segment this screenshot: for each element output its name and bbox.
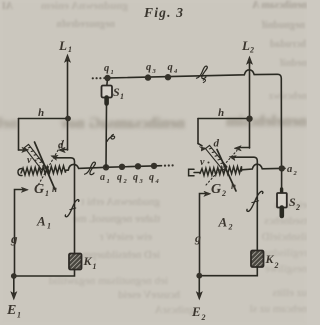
label K1 xyxy=(83,254,97,271)
wire q-line top (with hop over L2) xyxy=(104,70,282,165)
label A1 xyxy=(36,214,51,231)
label G1 xyxy=(34,182,49,198)
svg-text:1: 1 xyxy=(120,92,124,101)
relay K2 (hatched box) xyxy=(251,251,264,268)
svg-text:neb: neb xyxy=(0,115,18,132)
dashed pointer d xyxy=(39,141,64,185)
label G2 xyxy=(211,182,226,198)
svg-text:E: E xyxy=(191,304,201,319)
label f xyxy=(65,200,79,217)
svg-text:uz ellits: uz ellits xyxy=(272,287,307,299)
label f2 xyxy=(247,191,263,211)
svg-text:A: A xyxy=(218,215,228,230)
svg-text:S: S xyxy=(113,85,120,99)
wire g (left return) with arrow to n xyxy=(15,187,29,276)
wire h horizontal xyxy=(19,118,67,120)
wire h2 left vertical xyxy=(197,119,199,144)
svg-text:1: 1 xyxy=(47,222,51,231)
label S2 xyxy=(289,195,300,212)
figure caption Fig. 3 xyxy=(143,5,184,20)
svg-text:gnudnewnA eniem: gnudnewnA eniem xyxy=(41,0,128,12)
brush arm n2 xyxy=(217,150,236,192)
svg-text:gnudnewnA erhi t: gnudnewnA erhi t xyxy=(81,196,160,208)
arrow from L2 to contact (dashed end) xyxy=(234,146,249,151)
label K2 xyxy=(265,252,279,270)
svg-text:2: 2 xyxy=(228,223,233,232)
svg-text:q: q xyxy=(104,63,109,74)
svg-text:nehcsiwz: nehcsiwz xyxy=(268,91,307,102)
resistor G2 coil xyxy=(189,166,242,176)
label g xyxy=(10,231,18,246)
svg-text:d: d xyxy=(58,139,64,151)
svg-text:E: E xyxy=(6,303,16,318)
wire h left vertical xyxy=(18,119,20,151)
svg-text:q: q xyxy=(149,172,154,183)
svg-text:S: S xyxy=(289,195,296,209)
svg-text:nednif: nednif xyxy=(279,58,307,69)
wire t2 with hop over f2 xyxy=(242,164,286,170)
label E2 xyxy=(191,304,206,322)
terminal E1 arrow xyxy=(11,279,17,300)
svg-text:2: 2 xyxy=(295,203,300,212)
labels a1 q2 q3 q4 xyxy=(100,172,160,185)
svg-text:q: q xyxy=(133,172,138,183)
svg-text:tlahre negnusoL me: tlahre negnusoL me xyxy=(73,213,160,225)
wire t1 dotted section with taps xyxy=(109,166,162,168)
wire g2 (right return) with arrow to n2 xyxy=(200,191,211,276)
svg-text:q: q xyxy=(117,172,122,183)
label A2 xyxy=(218,215,233,232)
node q4 (top) xyxy=(165,74,171,80)
node h2 junction dot on L2 xyxy=(246,116,252,122)
svg-text:nenihcsamsaG nov: nenihcsamsaG nov xyxy=(60,115,185,132)
svg-text:L: L xyxy=(241,38,250,53)
svg-text:L: L xyxy=(58,38,67,53)
node E2 junction dot xyxy=(196,273,202,279)
label v xyxy=(27,155,37,166)
node q4 (lower) xyxy=(151,163,157,169)
svg-text:gnihcsrA: gnihcsrA xyxy=(155,304,195,316)
svg-text:2: 2 xyxy=(249,46,254,55)
svg-text:v: v xyxy=(200,157,205,168)
svg-text:eiw esieW r: eiw esieW r xyxy=(99,231,152,243)
svg-text:K: K xyxy=(265,252,275,266)
label a2 xyxy=(287,164,298,177)
wire K1 to bottom rail xyxy=(16,270,75,277)
svg-text:K: K xyxy=(83,254,93,268)
wire h2 horizontal xyxy=(198,118,247,120)
label h2 xyxy=(218,107,224,119)
q-line continuation dots (left) xyxy=(92,77,102,79)
labels q1 q3 q4 xyxy=(104,62,178,76)
svg-text:2: 2 xyxy=(274,261,279,270)
svg-text:nenihcsam A: nenihcsam A xyxy=(251,0,307,11)
svg-text:hcrudad: hcrudad xyxy=(269,39,306,50)
label d2 xyxy=(214,138,220,150)
svg-text:d: d xyxy=(214,138,220,150)
resistor G1 coil xyxy=(18,166,66,176)
svg-text:1: 1 xyxy=(107,178,110,185)
svg-text:v: v xyxy=(27,155,32,166)
svg-text:1: 1 xyxy=(93,262,97,271)
svg-text:h: h xyxy=(38,107,44,119)
svg-text:q: q xyxy=(146,62,151,73)
t1 continuation dots xyxy=(164,164,174,166)
node q2 xyxy=(119,164,125,170)
node q1 xyxy=(104,75,110,81)
svg-text:nenelehcsim: nenelehcsim xyxy=(226,113,307,130)
label l2 (script ell on q-line) xyxy=(197,66,208,79)
svg-text:q: q xyxy=(168,62,173,73)
terminal E2 arrow xyxy=(196,278,202,299)
svg-text:2: 2 xyxy=(201,313,206,322)
svg-text:ieD nehtsilduepm: ieD nehtsilduepm xyxy=(82,249,160,261)
svg-text:a: a xyxy=(100,172,105,183)
label n2 xyxy=(231,181,236,191)
svg-text:G: G xyxy=(34,182,44,197)
label d xyxy=(58,139,64,151)
label S1 xyxy=(113,85,124,101)
svg-text:tsednehcs: tsednehcs xyxy=(264,215,307,227)
svg-text:AI: AI xyxy=(2,1,13,12)
label s (wire 3) xyxy=(107,134,115,141)
wire f2 from brush (arrow, bend down) xyxy=(229,156,257,250)
label E1 xyxy=(6,303,21,320)
label t1 (script ell) xyxy=(85,162,96,175)
node h junction dot on L1 xyxy=(65,116,71,122)
brush arm n xyxy=(35,142,56,190)
label g2 xyxy=(194,231,201,245)
arrow to brush v2 (from h2) xyxy=(198,144,206,151)
wire t1 with hop over f xyxy=(66,164,104,170)
label L2 xyxy=(241,38,254,55)
svg-text:1: 1 xyxy=(17,311,21,320)
wire f from brush (arrow, bend down) xyxy=(51,155,75,252)
svg-text:negnuredrofn: negnuredrofn xyxy=(56,19,115,30)
node a2 xyxy=(279,165,285,171)
label L1 xyxy=(58,38,72,54)
svg-text:g: g xyxy=(10,231,18,246)
svg-text:g: g xyxy=(194,231,201,245)
label h xyxy=(38,107,44,119)
brush v2 (hatched band) xyxy=(206,145,228,170)
brush v (hatched band) xyxy=(25,144,47,170)
node q3 (lower) xyxy=(135,163,141,169)
terminal L1 arrow xyxy=(65,55,71,151)
svg-text:hcusreV eseid: hcusreV eseid xyxy=(118,289,180,301)
arrow to brush v (from h) xyxy=(19,147,29,152)
fuse S1 (box in series) xyxy=(102,81,113,167)
label v2 xyxy=(200,157,210,168)
svg-text:n: n xyxy=(231,181,236,191)
node E1 junction dot xyxy=(11,273,17,279)
wire K2 to bottom rail xyxy=(201,267,257,276)
svg-text:nehcam uz sl: nehcam uz sl xyxy=(250,303,307,315)
svg-text:1: 1 xyxy=(68,45,72,54)
relay K1 (hatched box) xyxy=(69,254,82,270)
node a1 xyxy=(103,164,109,170)
terminal L2 arrow xyxy=(247,57,253,149)
svg-text:h: h xyxy=(218,107,224,119)
svg-text:Fig. 3: Fig. 3 xyxy=(143,5,184,20)
svg-text:A: A xyxy=(36,214,46,229)
dashed pointer d2 xyxy=(206,151,237,186)
svg-text:2: 2 xyxy=(221,189,226,198)
svg-text:negnudnif: negnudnif xyxy=(261,20,305,31)
svg-text:a: a xyxy=(287,164,292,175)
fuse S2 (dead-end below a2) xyxy=(277,171,287,216)
arrow from L1 to contact d xyxy=(59,147,68,152)
svg-text:G: G xyxy=(211,182,221,197)
label n xyxy=(52,184,57,194)
node q3 (top) xyxy=(145,74,151,80)
svg-text:n: n xyxy=(52,184,57,194)
svg-text:ilsnhcielD: ilsnhcielD xyxy=(262,231,307,243)
svg-text:1: 1 xyxy=(111,69,114,76)
svg-text:1: 1 xyxy=(45,189,49,198)
